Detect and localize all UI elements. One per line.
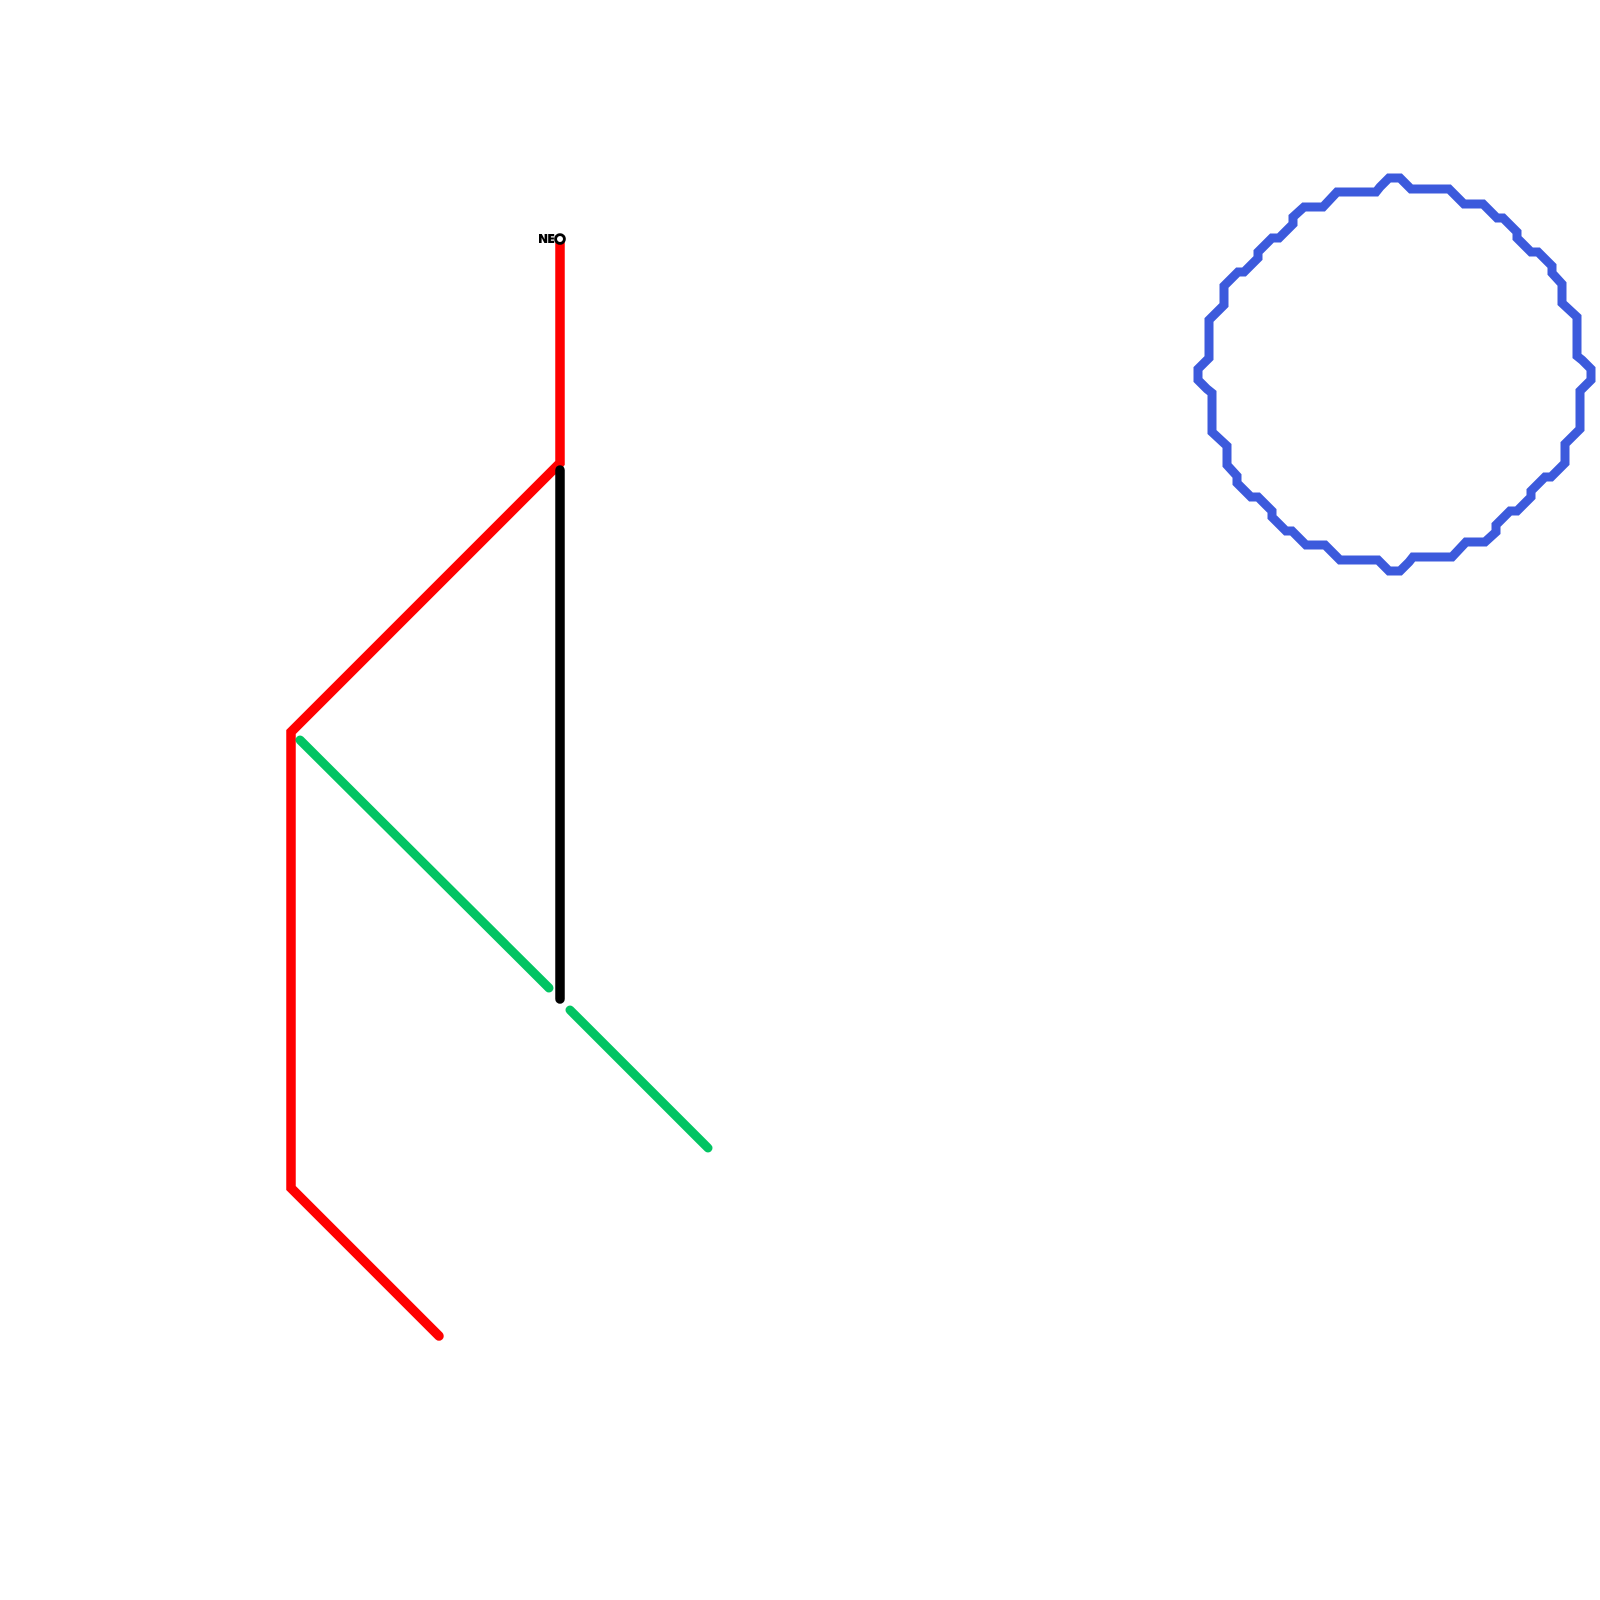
green metro line segment 1: elbow to black line: [300, 740, 549, 988]
station marker circle NE: [556, 235, 565, 244]
station label NE: letter E glyph: [548, 234, 554, 243]
green metro line segment 2: black line to tail end: [570, 1010, 708, 1148]
red metro line: vertical from station NE, diagonal to elbow, south leg, diagonal tail: [291, 240, 560, 1336]
station label NE: letter N glyph: [539, 234, 547, 243]
black metro line: vertical parallel segment: [555, 470, 565, 999]
blue jagged ring boundary: [1198, 178, 1591, 571]
